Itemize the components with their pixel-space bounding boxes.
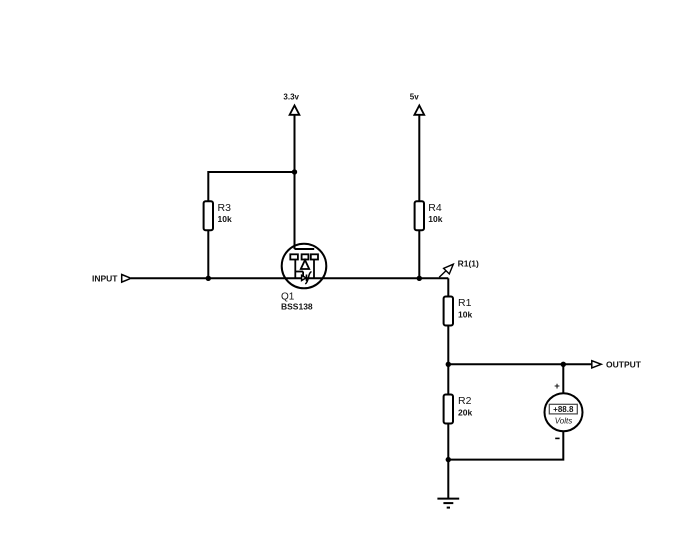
svg-text:R4: R4 [428, 202, 442, 214]
svg-text:R1: R1 [458, 297, 472, 309]
node junction R4/main [417, 276, 422, 281]
svg-text:5v: 5v [410, 93, 419, 102]
node junction voltmeter/output [561, 362, 566, 367]
gate link stub [302, 272, 304, 277]
svg-text:+: + [554, 381, 560, 392]
power flag 5v [410, 93, 424, 115]
pin pad 3 [311, 254, 318, 259]
voltmeter U2 [545, 381, 583, 438]
body arrow triangle [301, 260, 309, 269]
svg-text:INPUT: INPUT [92, 273, 118, 283]
resistor R1 [444, 297, 473, 326]
node junction 3.3v/gate [292, 169, 297, 174]
wire main horizontal INPUT net [131, 277, 448, 279]
resistor R2 [444, 395, 473, 424]
transistor Q1 BSS138 [281, 244, 326, 312]
wire gate bend inside Q1 [295, 248, 315, 250]
wire output horizontal [448, 363, 591, 365]
node junction R3/input [206, 276, 211, 281]
svg-text:3.3v: 3.3v [283, 93, 299, 102]
net flag INPUT [92, 273, 131, 283]
wire drop from corner to R1 [447, 278, 449, 296]
voltmeter display [549, 404, 577, 414]
wire node to ground [447, 460, 449, 498]
pin pad 2 [302, 254, 309, 259]
probe node R1(1) [439, 259, 479, 278]
svg-text:10k: 10k [458, 309, 472, 319]
wire voltmeter bottom return [448, 431, 563, 460]
wire R2 bottom segment [447, 424, 449, 460]
wire R3 top to 3.3v rail [208, 172, 294, 201]
svg-text:R3: R3 [218, 202, 232, 214]
wire 5v vertical to R4 [418, 114, 420, 201]
svg-text:BSS138: BSS138 [281, 302, 313, 312]
net flag OUTPUT [592, 359, 642, 369]
svg-text:20k: 20k [458, 408, 472, 418]
svg-text:+88.8: +88.8 [553, 405, 574, 414]
svg-text:Volts: Volts [555, 417, 573, 426]
pin pad 1 [290, 254, 298, 259]
svg-text:OUTPUT: OUTPUT [606, 359, 642, 369]
body diode cathode bar [306, 275, 308, 282]
wire R2 top segment [447, 364, 449, 394]
resistor R3 [204, 201, 232, 230]
wire R3 bottom branch [207, 230, 209, 278]
gate column [294, 260, 296, 278]
wire R1 bottom to output node [447, 326, 449, 365]
body diode triangle [302, 275, 306, 280]
svg-text:10k: 10k [428, 214, 442, 224]
power flag 3.3v [283, 93, 299, 115]
wire R4 bottom to main [418, 230, 420, 278]
body diode curve [305, 272, 311, 285]
source column [313, 260, 315, 279]
node junction R2/voltmeter/ground [446, 457, 451, 462]
wire voltmeter top branch [562, 364, 564, 393]
svg-text:R2: R2 [458, 395, 472, 407]
ground [437, 499, 459, 508]
gate link horizontal [295, 271, 303, 273]
svg-text:10k: 10k [218, 214, 232, 224]
resistor R4 [415, 201, 443, 230]
wire 3.3v vertical [294, 114, 296, 249]
svg-text:R1(1): R1(1) [458, 259, 479, 269]
voltmeter minus sign [555, 437, 559, 439]
node junction R1/R2/output [446, 362, 451, 367]
